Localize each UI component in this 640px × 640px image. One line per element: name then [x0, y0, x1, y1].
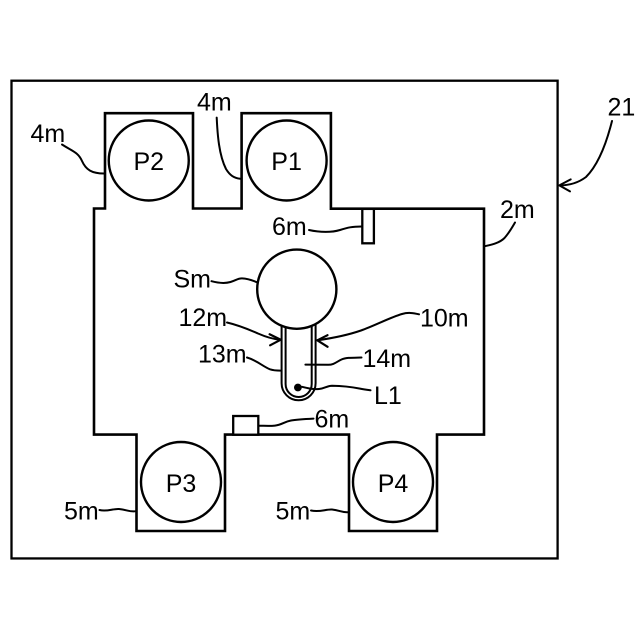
svg-text:P1: P1	[271, 148, 302, 176]
svg-text:4m: 4m	[31, 120, 66, 148]
svg-text:5m: 5m	[64, 498, 99, 526]
svg-text:21: 21	[608, 94, 636, 122]
svg-text:4m: 4m	[197, 89, 232, 117]
svg-text:P4: P4	[378, 470, 409, 498]
svg-text:5m: 5m	[276, 498, 311, 526]
svg-text:6m: 6m	[315, 406, 350, 434]
svg-text:6m: 6m	[272, 213, 307, 241]
svg-text:10m: 10m	[420, 304, 469, 332]
svg-text:14m: 14m	[363, 345, 412, 373]
svg-text:2m: 2m	[500, 196, 535, 224]
svg-text:12m: 12m	[179, 304, 228, 332]
svg-text:Sm: Sm	[174, 266, 212, 294]
svg-text:P3: P3	[166, 470, 197, 498]
svg-text:P2: P2	[133, 148, 164, 176]
svg-text:13m: 13m	[198, 341, 247, 369]
svg-text:L1: L1	[374, 382, 402, 410]
